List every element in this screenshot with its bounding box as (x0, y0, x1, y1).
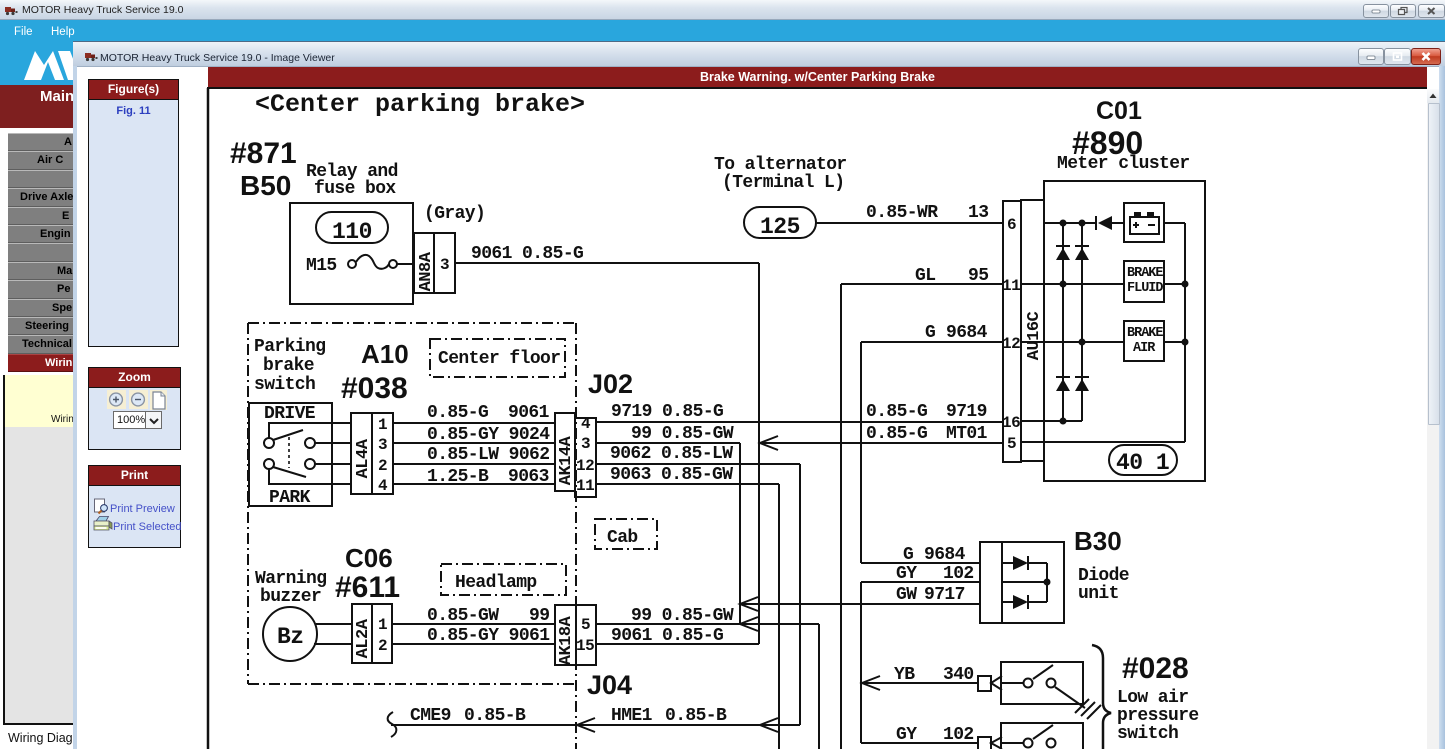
svg-text:9063: 9063 (508, 467, 549, 487)
svg-text:9061: 9061 (508, 403, 550, 423)
wire: GY-102 vertical drop (860, 582, 862, 743)
svg-text:AK18A: AK18A (557, 615, 576, 665)
outer window title bar (0, 0, 1445, 20)
svg-text:fuse box: fuse box (314, 179, 396, 199)
svg-text:HME1: HME1 (611, 706, 653, 726)
pin 12 wire to BRAKE AIR (1021, 341, 1124, 343)
svg-text:CME9: CME9 (410, 706, 451, 726)
wires AL4A to AK14A (393, 422, 555, 424)
svg-text:99: 99 (529, 606, 549, 626)
svg-text:3: 3 (581, 435, 590, 453)
B30 common rail (1002, 581, 1047, 583)
svg-text:J02: J02 (588, 369, 633, 399)
diode D1 (1002, 562, 1013, 564)
svg-text:(Gray): (Gray) (424, 204, 485, 224)
svg-text:Warning: Warning (255, 569, 326, 589)
meter cluster box (1044, 181, 1205, 481)
svg-text:AU16C: AU16C (1025, 311, 1044, 360)
svg-text:C01: C01 (1096, 97, 1142, 125)
wire: GL-95 vertical drop (840, 284, 842, 749)
svg-text:9719: 9719 (946, 402, 987, 422)
pin 6 rail (1044, 222, 1096, 224)
connector AK18A pins 5 15 (555, 605, 576, 665)
svg-text:0.85-G: 0.85-G (427, 403, 488, 423)
diode unit B30 box (980, 542, 1064, 623)
connector AN8A pin 3 (414, 233, 455, 293)
diagram left border (207, 88, 210, 749)
svg-text:12: 12 (1002, 335, 1020, 353)
svg-text:B50: B50 (240, 170, 291, 201)
battery to right rail (1164, 222, 1185, 224)
svg-text:1: 1 (378, 616, 387, 634)
menu bar (0, 20, 1445, 44)
svg-text:BRAKE: BRAKE (1127, 266, 1163, 281)
mechanical link (dashed) (288, 437, 290, 468)
svg-text:FLUID: FLUID (1127, 281, 1163, 296)
wire: 9062-LW vertical drop (799, 464, 801, 725)
wire: 9063-GW vertical drop (778, 484, 780, 749)
svg-text:2: 2 (378, 457, 387, 475)
connector AK14A pins 4 3 12 11 (555, 413, 575, 491)
low air pressure switch 1 connector (978, 676, 991, 691)
svg-text:99 0.85-GW: 99 0.85-GW (631, 424, 734, 444)
svg-text:AK14A: AK14A (557, 435, 576, 485)
svg-text:4: 4 (378, 477, 388, 495)
svg-text:switch: switch (1117, 724, 1178, 744)
svg-text:0.85-GY 9061: 0.85-GY 9061 (427, 626, 550, 646)
svg-text:M15: M15 (306, 256, 337, 276)
svg-text:A10: A10 (361, 339, 409, 369)
parking brake switch A10 box (249, 403, 332, 506)
Center floor label box (430, 339, 565, 377)
svg-text:(Terminal L): (Terminal L) (722, 173, 844, 193)
svg-text:Center floor: Center floor (438, 349, 560, 369)
svg-text:0.85-B: 0.85-B (665, 706, 727, 726)
svg-text:9719 0.85-G: 9719 0.85-G (611, 402, 723, 422)
svg-text:Headlamp: Headlamp (455, 573, 537, 593)
Headlamp label box (441, 564, 566, 595)
svg-text:switch: switch (254, 375, 315, 395)
svg-text:Bz: Bz (277, 624, 304, 650)
low air pressure switch 1 (1001, 662, 1083, 704)
svg-text:B30: B30 (1074, 526, 1122, 556)
svg-text:To alternator: To alternator (714, 155, 847, 175)
svg-text:12: 12 (576, 457, 594, 475)
connector AL4A pins 1 3 2 4 (351, 413, 393, 494)
svg-text:Diode: Diode (1078, 566, 1129, 586)
nav buttons (8, 133, 77, 151)
Cab label box (595, 519, 657, 549)
svg-text:125: 125 (760, 214, 800, 240)
svg-text:pressure: pressure (1117, 706, 1199, 726)
diode to battery (1095, 216, 1097, 230)
diagram title (208, 67, 1427, 87)
connector oval 401 (1109, 445, 1177, 475)
svg-text:AN8A: AN8A (417, 251, 436, 291)
pin 11 wire to BRAKE FLUID (1021, 283, 1124, 285)
wire: drop to bottom (818, 624, 820, 749)
svg-text:buzzer: buzzer (260, 587, 321, 607)
svg-text:0.85-B: 0.85-B (464, 706, 526, 726)
sidebar (0, 44, 77, 85)
diode columns (1062, 223, 1064, 421)
svg-text:PARK: PARK (269, 488, 311, 508)
connector AU16C (1003, 201, 1021, 462)
svg-text:11: 11 (576, 477, 594, 495)
lower diode pair (1056, 376, 1070, 378)
switch contacts (269, 423, 332, 438)
warning buzzer Bz (263, 607, 317, 661)
connector oval 125 (744, 207, 816, 238)
svg-text:Low air: Low air (1117, 688, 1188, 708)
svg-text:Parking: Parking (254, 337, 325, 357)
svg-text:BRAKE: BRAKE (1127, 326, 1163, 341)
wire: 99-GW vertical drop (739, 443, 741, 624)
low air pressure switch 2 connector (978, 737, 991, 749)
relay/fuse box B50 (290, 203, 413, 304)
svg-text:4: 4 (581, 415, 591, 433)
svg-text:6: 6 (1007, 216, 1016, 234)
wires switch to AL4A (332, 422, 351, 424)
charge lamp (battery) box (1124, 203, 1164, 242)
low air pressure switch 2 (1001, 723, 1083, 749)
svg-text:13: 13 (968, 203, 988, 223)
svg-text:5: 5 (581, 616, 590, 634)
fuse holder 110 stadium (316, 212, 388, 243)
connector AL2A pins 1 2 (352, 604, 392, 663)
svg-text:J04: J04 (587, 670, 632, 700)
svg-text:0.85-GW: 0.85-GW (427, 606, 499, 626)
svg-text:DRIVE: DRIVE (264, 404, 316, 424)
svg-text:#038: #038 (341, 372, 408, 405)
svg-text:0.85-LW 9062: 0.85-LW 9062 (427, 445, 549, 465)
svg-text:40 1: 40 1 (1116, 450, 1169, 476)
svg-text:C06: C06 (345, 543, 393, 573)
svg-text:AL2A: AL2A (354, 618, 373, 658)
wire: 9061-G vertical drop (758, 263, 760, 644)
svg-text:9061 0.85-G: 9061 0.85-G (471, 244, 583, 264)
BRAKE AIR lamp (1124, 321, 1164, 361)
svg-text:unit: unit (1078, 584, 1119, 604)
svg-text:1.25-B: 1.25-B (427, 467, 489, 487)
pin 16 wire (1021, 420, 1082, 422)
svg-text:9062 0.85-LW: 9062 0.85-LW (610, 444, 733, 464)
wires AL2A to AK18A (392, 623, 555, 625)
svg-text:9684: 9684 (946, 323, 988, 343)
svg-text:GW: GW (896, 585, 917, 605)
svg-text:AIR: AIR (1133, 341, 1156, 356)
svg-text:#871: #871 (230, 137, 297, 170)
svg-text:9063 0.85-GW: 9063 0.85-GW (610, 465, 733, 485)
svg-text:AL4A: AL4A (354, 438, 373, 478)
upper diode pair (1056, 245, 1070, 247)
svg-text:15: 15 (576, 637, 594, 655)
svg-text:0.85-G: 0.85-G (866, 402, 927, 422)
svg-text:3: 3 (378, 436, 387, 454)
svg-text:11: 11 (1002, 277, 1020, 295)
svg-text:#028: #028 (1122, 652, 1189, 685)
svg-text:#611: #611 (335, 571, 400, 604)
switch levers (273, 430, 303, 440)
wire: G-9684 vertical drop to B30 (860, 342, 862, 563)
svg-text:MT01: MT01 (946, 424, 988, 444)
svg-text:0.85-WR: 0.85-WR (866, 203, 938, 223)
diode D2 (1002, 601, 1013, 603)
svg-text:110: 110 (332, 219, 372, 245)
svg-text:3: 3 (440, 256, 449, 274)
left panels (88, 79, 179, 347)
svg-text:G: G (925, 323, 935, 343)
ground hatch (1075, 699, 1089, 713)
BRAKE FLUID lamp (1124, 261, 1164, 302)
svg-text:Meter cluster: Meter cluster (1057, 154, 1190, 174)
svg-text:1: 1 (378, 416, 387, 434)
svg-text:0.85-G: 0.85-G (866, 424, 927, 444)
svg-text:0.85-GY 9024: 0.85-GY 9024 (427, 425, 550, 445)
brace (1092, 645, 1111, 749)
wires buzzer to AL2A (316, 623, 352, 625)
scrollbar (1427, 89, 1439, 749)
dash-dot boundary: center floor region (248, 322, 576, 324)
svg-text:2: 2 (378, 637, 387, 655)
svg-text:brake: brake (263, 356, 314, 376)
svg-text:<Center parking brake>: <Center parking brake> (255, 90, 585, 119)
svg-text:9717: 9717 (924, 585, 965, 605)
svg-text:16: 16 (1002, 414, 1020, 432)
pin 5 wire (1021, 441, 1185, 443)
svg-text:5: 5 (1007, 435, 1016, 453)
svg-text:Cab: Cab (607, 528, 638, 548)
